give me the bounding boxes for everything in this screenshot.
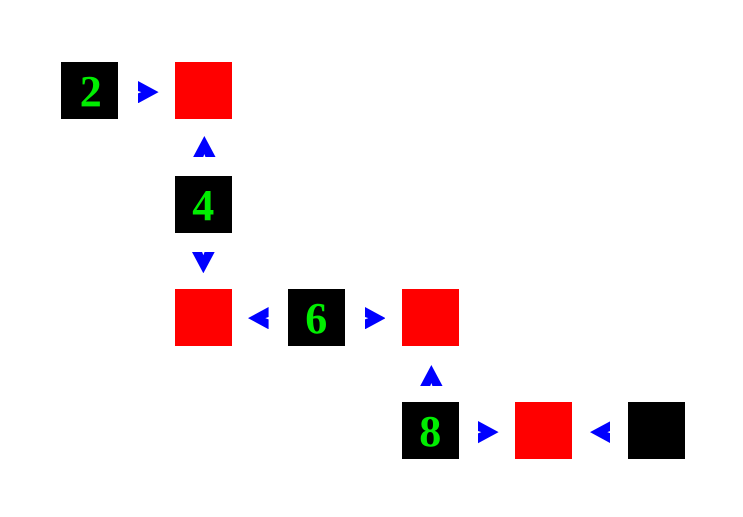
arrow up to red square xyxy=(193,136,216,157)
node 6 (black square) xyxy=(288,289,345,346)
red square row2 right xyxy=(402,289,459,346)
node 4 (black square) xyxy=(175,176,232,233)
red square row3 xyxy=(515,402,572,459)
label 6 xyxy=(288,290,345,347)
node 8 (black square) xyxy=(402,402,459,459)
label 2 xyxy=(62,63,119,120)
empty black square xyxy=(628,402,685,459)
arrow down from 4 xyxy=(192,252,215,273)
label 4 xyxy=(175,177,232,234)
arrow left from empty square xyxy=(590,421,611,443)
arrow right from 6 xyxy=(365,307,386,329)
arrow up to red square row2 xyxy=(420,365,443,386)
arrow left from 6 xyxy=(248,307,269,329)
red square row2 left xyxy=(175,289,232,346)
arrow right from 8 xyxy=(478,421,499,443)
red square row0 xyxy=(175,62,232,119)
arrow right from 2 xyxy=(138,81,159,103)
node 2 (black square) xyxy=(61,62,118,119)
label 8 xyxy=(402,403,459,460)
